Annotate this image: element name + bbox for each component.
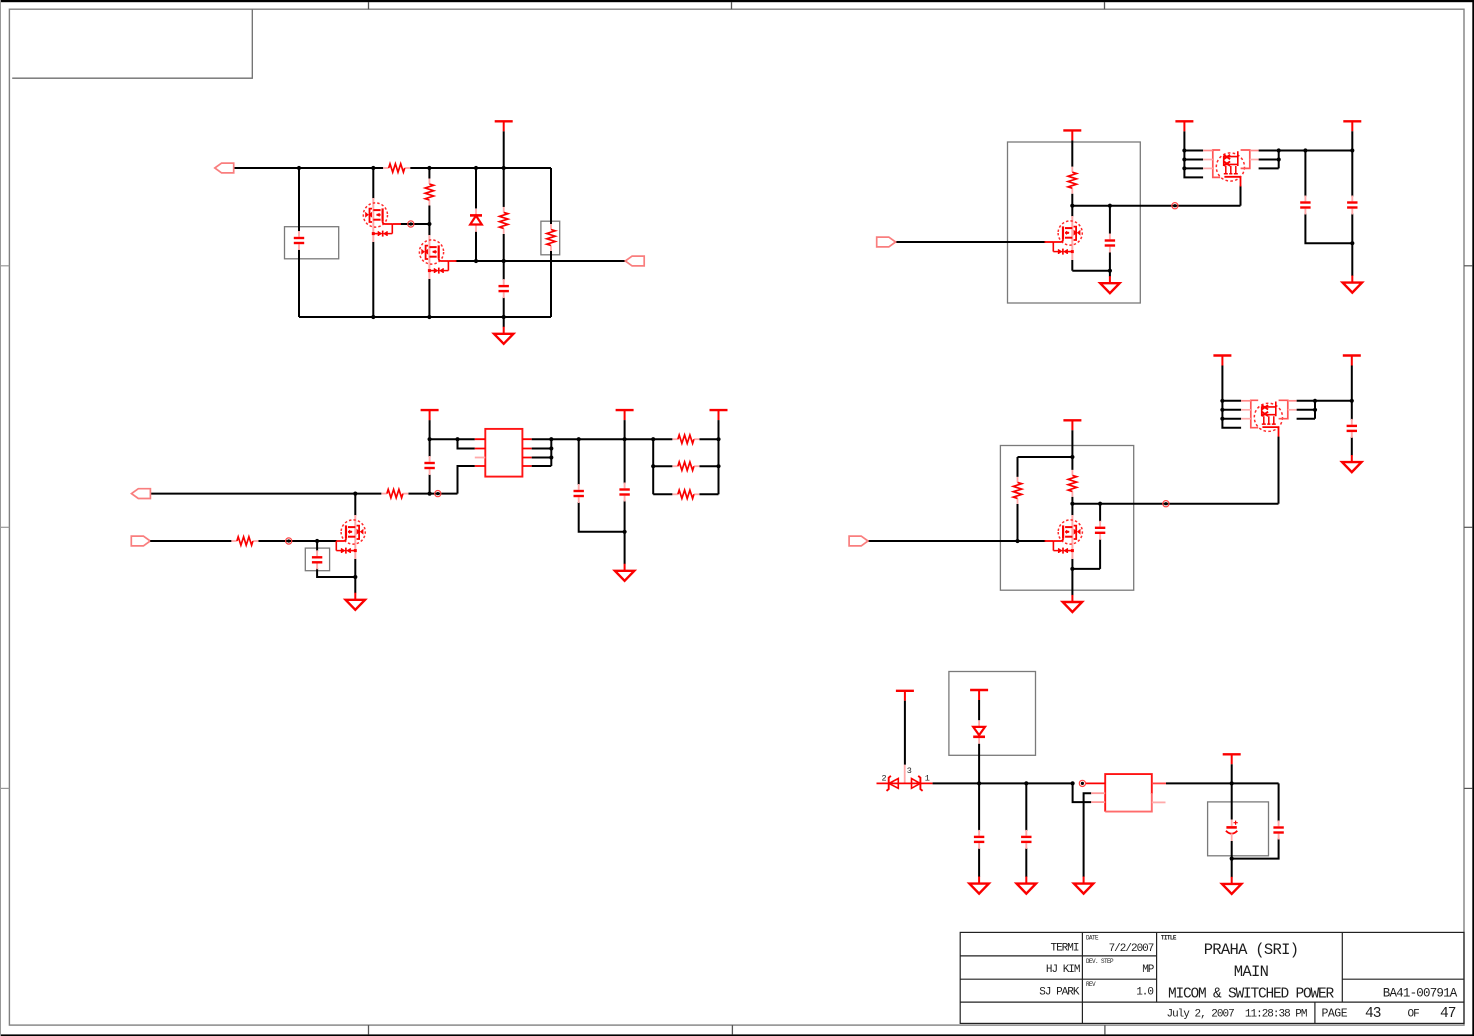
- junction dot: [1350, 399, 1354, 403]
- capacitor C5: [1347, 196, 1357, 215]
- border tick left 2: [0, 526, 9, 528]
- power symbol VCC1: [495, 121, 513, 131]
- svg-text:TITLE: TITLE: [1161, 935, 1177, 942]
- resistor R9: [1068, 470, 1076, 497]
- ground GND5: [346, 593, 365, 610]
- capacitor C9: [312, 550, 322, 569]
- transistor Q5: [336, 515, 365, 559]
- wire left branch vertical lower: [298, 249, 300, 317]
- wire power stem: [1071, 430, 1073, 470]
- junction dot: [474, 166, 478, 170]
- junction dot: [623, 530, 627, 534]
- title block row line 2 right: [1342, 978, 1464, 980]
- wire C10 bottom lead: [1099, 539, 1101, 569]
- capacitor C7: [574, 484, 584, 503]
- wire Q6 drain vertical: [1071, 504, 1073, 516]
- capacitor C11: [1347, 419, 1357, 438]
- power symbol VCC5: [421, 410, 439, 420]
- wire C5 top lead: [1351, 151, 1353, 197]
- junction dot: [1098, 502, 1102, 506]
- wire C2 top lead: [503, 261, 505, 280]
- wire ECAP bottom lead: [1231, 841, 1233, 859]
- title block divider col1/col2: [1081, 932, 1083, 1023]
- wire power stem R3: [503, 131, 505, 207]
- svg-text:DATE: DATE: [1086, 935, 1099, 942]
- wire R5 to junction: [1071, 194, 1073, 206]
- wire bank row3 leads: [653, 493, 718, 495]
- border tick right 1: [1464, 265, 1472, 267]
- wire bank row1 leads: [653, 438, 718, 440]
- svg-text:REV: REV: [1086, 981, 1096, 988]
- port connector input P4: [132, 489, 151, 499]
- capacitor C8: [619, 483, 629, 502]
- junction dot: [623, 437, 627, 441]
- wire C6 bottom lead: [429, 474, 431, 494]
- wire ground stem: [1351, 243, 1353, 276]
- wire ECAP top lead: [1231, 783, 1233, 819]
- junction dot: [1070, 567, 1074, 571]
- junction dot: [651, 464, 655, 468]
- node marker net: [1172, 203, 1178, 209]
- title block row line 1: [960, 955, 1156, 957]
- wire R3 to mid rail: [503, 234, 505, 261]
- wire C9 bottom jog: [317, 568, 355, 577]
- junction dot: [1350, 148, 1354, 152]
- diode D2 cathode bar: [887, 776, 891, 791]
- IC U4 pin3 stub: [1091, 801, 1105, 803]
- transistor Q1: [363, 198, 392, 242]
- svg-text:PRAHA (SRI): PRAHA (SRI): [1204, 941, 1299, 959]
- wire top rail left: [234, 167, 384, 169]
- junction dot: [455, 437, 459, 441]
- ground GND6: [1063, 595, 1082, 612]
- diode D4: [973, 720, 985, 744]
- border tick top 3: [1104, 2, 1106, 9]
- wire ground stem: [1071, 569, 1073, 596]
- component box around C1: [285, 227, 339, 259]
- wire VCC4 stem: [1351, 131, 1353, 150]
- junction dot: [1277, 157, 1281, 161]
- wire ground stem: [1109, 271, 1111, 277]
- junction dot: [1313, 399, 1317, 403]
- wire VCC6 stem: [624, 420, 626, 439]
- wire C4 top lead: [1304, 151, 1306, 197]
- junction dot: [427, 315, 431, 319]
- transistor Q2: [419, 235, 448, 279]
- wire input to Q6 gate: [868, 540, 1046, 542]
- wire Q1 source vertical: [372, 242, 374, 317]
- sheet right black bar: [1472, 0, 1474, 1036]
- wire C2 bottom lead: [503, 297, 505, 317]
- power symbol VCC2: [1063, 130, 1081, 140]
- svg-text:MP: MP: [1142, 964, 1155, 976]
- wire R4 branch bottom: [550, 251, 552, 317]
- resistor R2: [425, 179, 433, 206]
- ground GND8: [969, 877, 988, 894]
- power symbol VCC9: [1213, 356, 1231, 366]
- sheet top black bar: [0, 0, 1474, 2]
- wire C10 top lead: [1099, 504, 1101, 522]
- junction dot: [1070, 502, 1074, 506]
- wire R2 top lead: [428, 168, 430, 179]
- wire input to Q3 gate: [896, 241, 1046, 243]
- junction dot: [1182, 157, 1186, 161]
- wire main rail up to IC pin4: [458, 466, 475, 494]
- ground GND9: [1017, 877, 1036, 894]
- wire C5 bottom lead: [1351, 214, 1353, 244]
- junction dot: [1182, 148, 1186, 152]
- wire junction to cluster drain: [1072, 503, 1278, 505]
- wire C9 top lead: [316, 541, 318, 551]
- title block row line 2 left: [960, 978, 1156, 980]
- wire Q1 gate to node: [401, 223, 430, 225]
- border tick bottom 3: [1104, 1025, 1106, 1034]
- junction dot: [977, 781, 981, 785]
- border tick bottom 1: [368, 1025, 370, 1034]
- border tick left 3: [0, 787, 9, 789]
- junction dot: [1108, 269, 1112, 273]
- transistor pair U2: [1203, 150, 1259, 187]
- power symbol VCC12: [970, 690, 988, 700]
- dual mosfet package U3 rails: [1222, 366, 1241, 428]
- wire C8 bottom lead: [624, 501, 626, 532]
- junction dot: [1230, 857, 1234, 861]
- wire mid rail to output: [456, 260, 626, 262]
- IC U1 right pin stubs: [522, 439, 531, 466]
- wire main rail: [933, 782, 1073, 784]
- transistor Q6: [1053, 515, 1082, 559]
- ground GND4: [615, 564, 634, 581]
- wire pin1 horizontal: [430, 438, 475, 440]
- title block outer frame: [960, 932, 1464, 1023]
- wire power rail to IC pin1: [429, 420, 431, 457]
- junction dot: [502, 166, 506, 170]
- wire junction to cluster drain: [1072, 205, 1240, 207]
- wire VCC7 stem: [718, 420, 720, 439]
- wire main rail left: [150, 493, 381, 495]
- junction dot: [1070, 204, 1074, 208]
- power symbol VCC13: [1223, 754, 1241, 764]
- junction dot: [427, 222, 431, 226]
- IC U1 left pin stubs: [475, 439, 486, 466]
- wire power stem to R5: [1071, 140, 1073, 166]
- ground GND10: [1074, 877, 1093, 894]
- diode D3 triangle: [912, 779, 921, 789]
- wire D1 branch vertical: [475, 168, 477, 209]
- junction dot: [549, 446, 553, 450]
- svg-text:1.0: 1.0: [1136, 987, 1153, 999]
- wire branch left horizontal: [1018, 456, 1073, 458]
- capacitor C2: [499, 279, 509, 298]
- junction dot: [1303, 148, 1307, 152]
- junction dot: [1070, 455, 1074, 459]
- wire Q2 source vertical: [428, 279, 430, 317]
- border tick left 1: [0, 265, 9, 267]
- ground GND1: [494, 327, 513, 344]
- sheet left edge line: [0, 0, 2, 1036]
- junction dot: [474, 259, 478, 263]
- wire C3 top lead: [1109, 206, 1111, 234]
- wire C8 top lead: [624, 439, 626, 483]
- port connector input P3: [877, 237, 896, 247]
- wire ground stem: [624, 532, 626, 564]
- node marker net: [1079, 780, 1085, 786]
- wire R8 bottom lead: [1017, 504, 1019, 541]
- svg-text:2: 2: [881, 774, 886, 784]
- svg-text:BA41-00791A: BA41-00791A: [1383, 987, 1458, 1001]
- title block divider col3/col4: [1341, 932, 1343, 1002]
- wire Q1 drain vertical: [372, 168, 374, 199]
- capacitor C3: [1105, 234, 1115, 253]
- resistor R10: [672, 435, 699, 443]
- svg-text:OF: OF: [1408, 1009, 1420, 1021]
- ground GND11: [1222, 877, 1241, 894]
- wire gate rail right: [258, 540, 336, 542]
- port connector input P5: [131, 536, 150, 546]
- wire bottom rail: [299, 316, 551, 318]
- resistor R7: [231, 537, 258, 545]
- capacitor C12: [974, 830, 984, 849]
- wire D1 lower lead: [475, 232, 477, 262]
- wire output rail: [1166, 782, 1279, 784]
- svg-text:MAIN: MAIN: [1234, 963, 1269, 981]
- resistor R3: [500, 207, 508, 234]
- junction dot: [549, 437, 553, 441]
- junction dot: [371, 166, 375, 170]
- wire cluster to power rail: [1279, 150, 1353, 152]
- power symbol VCC6: [616, 410, 634, 420]
- IC U1 pin3 stub unconnected: [475, 457, 486, 459]
- wire C12 bottom lead: [978, 848, 980, 877]
- power symbol VCC4: [1343, 121, 1361, 131]
- port connector output P2: [625, 256, 644, 266]
- wire left branch vertical: [298, 168, 300, 232]
- wire C11 bottom lead: [1351, 437, 1353, 456]
- junction dot: [1220, 399, 1224, 403]
- ground GND3: [1343, 276, 1362, 293]
- wire C14 branch: [1232, 783, 1279, 858]
- wire R9 bottom to junction: [1071, 497, 1073, 504]
- node marker net: [1163, 501, 1169, 507]
- title block divider col2/col3: [1156, 932, 1158, 1002]
- junction dot: [1071, 781, 1075, 785]
- border tick right 3: [1464, 787, 1472, 789]
- wire top rail right: [410, 167, 551, 169]
- junction dot: [716, 464, 720, 468]
- capacitor C6: [424, 456, 434, 475]
- junction dot: [371, 315, 375, 319]
- wire VCC12 stem: [978, 700, 980, 720]
- wire R8 top lead: [1017, 457, 1019, 477]
- component box around C9: [305, 548, 329, 571]
- wire VCC13 stem: [1231, 764, 1233, 783]
- component box around R4: [541, 221, 560, 255]
- port connector input P6: [849, 536, 868, 546]
- wire R4 branch top: [550, 168, 552, 224]
- junction dot: [297, 166, 301, 170]
- capacitor C14: [1273, 821, 1283, 840]
- wire Q6 source vertical: [1071, 559, 1073, 569]
- junction dot: [353, 492, 357, 496]
- sheet bottom black bar: [0, 1034, 1474, 1036]
- resistor bank left rail: [652, 439, 654, 494]
- component box around Q6: [1000, 446, 1133, 591]
- svg-text:MICOM & SWITCHED POWER: MICOM & SWITCHED POWER: [1168, 987, 1335, 1003]
- svg-text:TERMI: TERMI: [1050, 943, 1078, 955]
- wire source to cap bottom: [1072, 270, 1110, 272]
- wire cluster to power rail: [1315, 400, 1352, 402]
- wire Q3 drain vertical: [1071, 206, 1073, 217]
- junction dot: [502, 315, 506, 319]
- wire Q5 source vertical: [354, 559, 356, 577]
- resistor R12: [672, 490, 699, 498]
- junction dot: [315, 539, 319, 543]
- power symbol VCC10: [1343, 356, 1361, 366]
- junction dot: [1350, 241, 1354, 245]
- transistor pair U3: [1241, 400, 1297, 437]
- diode D1: [470, 209, 482, 232]
- title block page cell divider: [1314, 1002, 1316, 1023]
- wire cluster drain vertical: [1240, 186, 1242, 206]
- resistor R5: [1068, 167, 1076, 194]
- border tick top 1: [368, 2, 370, 9]
- ground GND7: [1342, 455, 1361, 472]
- junction dot: [1220, 417, 1224, 421]
- border tick right 2: [1464, 526, 1472, 528]
- resistor R8: [1013, 477, 1021, 504]
- power symbol VCC3: [1175, 121, 1193, 131]
- power symbol VCC7: [710, 410, 728, 420]
- border tick top 2: [731, 2, 733, 9]
- component box around Q3: [1008, 142, 1141, 303]
- junction dot: [353, 575, 357, 579]
- node marker on main rail: [435, 491, 441, 497]
- wire diode pair centre pin3 pink: [904, 765, 906, 784]
- node marker on gate rail: [286, 538, 292, 544]
- wire pin3 jog from rail: [1073, 783, 1092, 802]
- IC U4 body: [1105, 774, 1152, 812]
- wire gate red stub: [1045, 540, 1054, 542]
- IC U4 right pin stub unconnected: [1152, 801, 1166, 803]
- junction dot: [428, 492, 432, 496]
- svg-text:47: 47: [1440, 1006, 1456, 1022]
- resistor R11: [672, 462, 699, 470]
- wire C12 top lead: [978, 783, 980, 831]
- dual mosfet right pins: [1259, 151, 1279, 169]
- wire C7 top lead: [578, 439, 580, 485]
- title block row line 3: [960, 1001, 1464, 1003]
- svg-text:SJ PARK: SJ PARK: [1039, 987, 1080, 999]
- wire right pins tie vertical: [532, 439, 552, 466]
- resistor R6: [381, 489, 408, 497]
- wire pin1-pin2 tie: [458, 439, 475, 448]
- IC U4 right output stub: [1152, 782, 1166, 784]
- transistor Q3: [1053, 216, 1082, 260]
- component box around D4: [949, 672, 1036, 756]
- wire gate red stub: [1045, 241, 1054, 243]
- svg-text:HJ KIM: HJ KIM: [1046, 964, 1080, 976]
- capacitor C4: [1300, 196, 1310, 215]
- wire main rail right of R6: [408, 493, 457, 495]
- wire C3 bottom lead: [1109, 252, 1111, 270]
- power symbol VCC8: [1063, 420, 1081, 430]
- component box around ECAP: [1208, 802, 1269, 856]
- node marker on Q1 gate: [408, 221, 414, 227]
- wire gate rail left: [150, 540, 231, 542]
- wire C4 bottom jog: [1305, 214, 1352, 244]
- wire IC output rail: [532, 438, 654, 440]
- diode D3 cathode bar: [918, 776, 922, 791]
- port connector input P1: [215, 163, 234, 173]
- wire C7 bottom jog: [579, 502, 625, 532]
- IC U4 pin2 stub: [1091, 792, 1105, 794]
- junction dot: [1230, 781, 1234, 785]
- TITLE BLOCK: [960, 932, 1464, 1023]
- resistor R4: [547, 224, 555, 251]
- resistor R1: [383, 164, 410, 172]
- wire bank row2 leads: [653, 465, 718, 467]
- junction dot: [716, 437, 720, 441]
- wire ground stem: [1231, 859, 1233, 878]
- wire diode pair rail red: [877, 782, 933, 784]
- junction dot: [1108, 204, 1112, 208]
- dual mosfet right pins: [1297, 401, 1315, 419]
- wire Q2 gate red stub: [448, 260, 456, 262]
- junction dot: [651, 437, 655, 441]
- junction dot: [427, 166, 431, 170]
- IC U1 body: [485, 429, 522, 477]
- wire cluster drain vertical: [1278, 437, 1280, 504]
- junction dot: [1220, 408, 1224, 412]
- wire R2 bottom to Q2: [428, 206, 430, 236]
- IC U4 pin1 red lead: [1086, 782, 1106, 784]
- junction dot: [1277, 148, 1281, 152]
- resistor bank right rail: [718, 439, 720, 494]
- wire C13 top lead: [1025, 783, 1027, 831]
- wire Q3 source vertical: [1071, 260, 1073, 271]
- svg-text:DEV. STEP: DEV. STEP: [1086, 958, 1114, 965]
- capacitor C13: [1021, 830, 1031, 849]
- wire ground stem: [354, 577, 356, 593]
- wire ground stem: [503, 317, 505, 327]
- svg-text:July 2, 2007 11:28:38 PM: July 2, 2007 11:28:38 PM: [1166, 1009, 1306, 1021]
- electrolytic capacitor CE1: [1226, 820, 1238, 842]
- wire Q1 gate red lead: [392, 223, 401, 225]
- wire VCC11 stem: [904, 701, 906, 765]
- junction dot: [577, 437, 581, 441]
- junction dot: [549, 455, 553, 459]
- border tick bottom 2: [731, 1025, 733, 1034]
- top-left reference box: [12, 9, 252, 78]
- junction dot: [1015, 539, 1019, 543]
- svg-text:7/2/2007: 7/2/2007: [1109, 943, 1154, 955]
- wire D4 to rail: [978, 744, 980, 784]
- capacitor C10: [1095, 521, 1105, 540]
- svg-text:3: 3: [907, 766, 912, 776]
- dual mosfet package U2 rails: [1184, 131, 1203, 177]
- svg-text:1: 1: [925, 774, 930, 784]
- wire pin2 jog to ground: [1084, 793, 1092, 877]
- capacitor C1: [294, 231, 304, 250]
- junction dot: [1024, 781, 1028, 785]
- ground GND2: [1100, 276, 1119, 293]
- wire C13 bottom lead: [1025, 848, 1027, 877]
- svg-text:43: 43: [1365, 1006, 1381, 1022]
- wire VCC10 stem: [1351, 366, 1353, 401]
- diode D2 triangle: [889, 779, 898, 789]
- power symbol VCC11: [896, 691, 914, 701]
- wire source to cap bottom: [1072, 568, 1100, 570]
